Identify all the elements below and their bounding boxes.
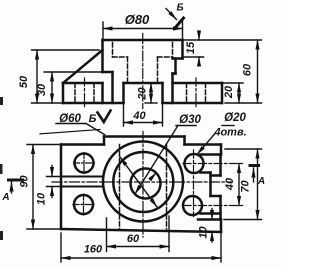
base top left bbox=[63, 82, 103, 85]
dim 40 ext right bbox=[162, 105, 164, 126]
lug step lower bbox=[211, 195, 221, 198]
svg-text:Ø60: Ø60 bbox=[59, 113, 81, 125]
centerline hole TL vertical bbox=[83, 153, 85, 174]
dim 90 ext top bbox=[27, 144, 59, 146]
hole bottom-left Ø20 bbox=[74, 195, 93, 214]
svg-text:4отв.: 4отв. bbox=[213, 127, 246, 139]
hidden hole right Ø20 bbox=[186, 83, 188, 103]
view B arrow top bbox=[166, 9, 177, 20]
dim 15 ext bottom bbox=[184, 56, 204, 58]
centerline bottom horizontal bbox=[52, 181, 231, 183]
leader Ø30 underline bbox=[176, 125, 196, 127]
step right at y=73.5 bbox=[173, 72, 176, 75]
boss strip stub right bbox=[183, 137, 186, 145]
dim 160 ext right bbox=[220, 234, 222, 262]
svg-text:Б: Б bbox=[89, 113, 97, 125]
svg-text:10: 10 bbox=[36, 192, 48, 205]
section A mark right bar bbox=[250, 164, 259, 167]
rect bottom edge bbox=[61, 229, 221, 232]
dim 10 ext top bbox=[47, 176, 62, 178]
dim 90 line bbox=[32, 145, 34, 230]
rib slot top line bbox=[61, 176, 103, 178]
notch top bbox=[124, 82, 163, 85]
section A mark right arrow bbox=[253, 168, 255, 182]
svg-text:60: 60 bbox=[127, 233, 140, 245]
dim 160 line bbox=[61, 257, 221, 259]
rect right edge top seg bbox=[220, 145, 223, 155]
dim 40 line bbox=[124, 122, 163, 124]
leader Ø60 bbox=[56, 123, 86, 125]
leader Ø60 lower line bbox=[40, 130, 100, 134]
centerline lugs vertical bbox=[193, 150, 195, 217]
svg-text:20: 20 bbox=[223, 85, 235, 99]
dim 15 ext top (flange top extended right) bbox=[184, 39, 262, 41]
circle Ø30 bbox=[131, 169, 161, 199]
dim 50 ext top bbox=[32, 49, 100, 51]
base bottom right bbox=[163, 102, 223, 105]
lug bottom edge bbox=[198, 218, 221, 221]
lug outer edge upper bbox=[219, 155, 222, 176]
svg-text:70: 70 bbox=[240, 180, 252, 193]
lug outer edge lower bbox=[219, 196, 222, 220]
rect top left bbox=[61, 143, 104, 146]
dim 60 ext bottom right bbox=[225, 102, 262, 104]
rib diagonal bbox=[63, 50, 103, 83]
centerline hole TL horizontal bbox=[74, 162, 95, 164]
dim Ø80 line bbox=[103, 28, 183, 30]
dim Ø80 ext right bbox=[182, 19, 184, 39]
circle Ø60 bbox=[113, 152, 173, 212]
svg-text:40: 40 bbox=[224, 177, 236, 191]
view B arrow left (near Ø60) bbox=[98, 111, 111, 123]
hidden notch edge right bbox=[166, 145, 168, 230]
dim 50 line bbox=[36, 50, 38, 103]
rect right edge bottom seg bbox=[220, 220, 223, 233]
svg-text:90: 90 bbox=[19, 175, 31, 188]
svg-text:Б: Б bbox=[176, 3, 183, 14]
lug slot bottom lower bbox=[201, 212, 221, 215]
leader 4otv to top lug bbox=[197, 134, 215, 155]
svg-text:А: А bbox=[257, 176, 265, 187]
base top right bbox=[173, 82, 223, 85]
dim 60 ext right bbox=[168, 216, 170, 252]
hole top-left Ø20 bbox=[75, 154, 94, 173]
flange right edge bbox=[181, 40, 184, 59]
hidden counterbore right wall bbox=[172, 43, 174, 58]
step left at y=72 bbox=[103, 71, 113, 74]
dim 70 ext bottom bbox=[224, 219, 262, 221]
lug slot top upper bbox=[201, 153, 222, 156]
centerline hole BL horizontal bbox=[73, 204, 94, 206]
leader Ø20 underline bbox=[222, 125, 234, 127]
svg-text:Ø80: Ø80 bbox=[125, 12, 150, 27]
base bottom left bbox=[63, 102, 124, 105]
svg-text:Ø30: Ø30 bbox=[179, 114, 201, 126]
rect left edge bbox=[60, 145, 63, 230]
edge smudge bottom-left bbox=[0, 231, 3, 240]
dim 60 ext left bbox=[106, 218, 108, 252]
dim 30 ext top bbox=[44, 71, 112, 73]
svg-text:10: 10 bbox=[198, 226, 210, 239]
dim 160 ext left bbox=[60, 233, 62, 262]
lug step upper bbox=[211, 174, 221, 177]
centerline lug bottom horizontal bbox=[183, 205, 243, 207]
dim 60 line bbox=[107, 246, 170, 248]
dim 90 ext bottom bbox=[27, 228, 59, 230]
hidden counterbore bottom left bbox=[113, 56, 128, 58]
lug slot bottom upper bbox=[201, 171, 211, 174]
centerline hole BL vertical bbox=[83, 194, 85, 215]
svg-text:Ø20: Ø20 bbox=[224, 112, 246, 124]
hidden hole left Ø20 bbox=[74, 83, 76, 103]
boss strip stub left bbox=[103, 137, 106, 145]
dim 40 ext left bbox=[123, 105, 125, 126]
dim 30 line bbox=[51, 72, 53, 103]
hidden notch edge left bbox=[119, 145, 121, 230]
centerline front hole left bbox=[84, 78, 86, 107]
leader Ø30 into bottom view bbox=[135, 126, 178, 195]
dim 20 line right bbox=[238, 83, 240, 103]
dim 60 line right bbox=[257, 40, 259, 103]
base right edge bbox=[221, 83, 224, 103]
centerline front hole right bbox=[195, 78, 197, 107]
dim bottom ext left bbox=[32, 102, 64, 104]
dim 10 right arrow bottom bbox=[211, 232, 213, 243]
lug inner wall bbox=[209, 173, 212, 197]
dim 10 right arrow top bbox=[211, 209, 213, 220]
dim 10 arrow bottom bbox=[51, 187, 53, 198]
dim 15 arrow bottom bbox=[198, 57, 200, 66]
boss left edge bbox=[111, 72, 114, 103]
flange bottom right visible bbox=[173, 57, 183, 60]
svg-text:30: 30 bbox=[36, 83, 48, 96]
hidden hole Ø30 right bbox=[157, 57, 159, 83]
lug top-right circle bbox=[185, 154, 204, 173]
svg-text:50: 50 bbox=[18, 75, 30, 88]
centerline lug top horizontal bbox=[183, 163, 243, 165]
svg-text:15: 15 bbox=[185, 41, 197, 54]
hidden hole Ø30 left bbox=[127, 57, 129, 83]
section A mark left arrow bbox=[11, 182, 13, 193]
dim 70 line bbox=[257, 149, 259, 220]
notch right wall bbox=[161, 83, 164, 103]
lug bottom-right circle bbox=[183, 196, 202, 215]
section A mark left bar bbox=[9, 179, 23, 182]
dim 15 arrow top bbox=[198, 31, 200, 40]
rect top right bbox=[185, 143, 222, 146]
rib slot bottom line bbox=[61, 186, 103, 188]
leader Ø60 diagonal arrows in circle bbox=[120, 157, 157, 207]
svg-text:60: 60 bbox=[242, 63, 254, 76]
svg-text:40: 40 bbox=[132, 110, 146, 122]
dim 10 ext bottom bbox=[47, 186, 62, 188]
rib front edge bbox=[101, 83, 104, 103]
boss strip top bbox=[104, 135, 185, 138]
circle Ø80 bbox=[103, 142, 183, 222]
dim 10 arrow top bbox=[51, 166, 53, 177]
dim Ø80 ext left bbox=[102, 22, 104, 39]
hidden counterbore left wall bbox=[112, 43, 114, 58]
boss right edge bbox=[171, 74, 174, 104]
base left edge bbox=[62, 83, 65, 103]
dim 20 notch ext bbox=[145, 102, 157, 104]
svg-text:А: А bbox=[1, 192, 9, 203]
hidden counterbore bottom right bbox=[158, 56, 173, 58]
dim 70 ext top bbox=[225, 148, 262, 150]
svg-text:160: 160 bbox=[84, 244, 103, 256]
dim 40 right line bbox=[238, 164, 240, 206]
edge smudge mid-left bbox=[0, 164, 3, 174]
dim 20 notch line bbox=[150, 83, 152, 103]
collar right edge bbox=[174, 59, 177, 74]
leader Ø30 second arrow bbox=[150, 173, 156, 180]
svg-text:20: 20 bbox=[137, 87, 149, 101]
notch left wall bbox=[122, 83, 125, 103]
dim 20 ext top right bbox=[223, 82, 243, 84]
flange top edge bbox=[103, 39, 183, 42]
centerline bottom vertical bbox=[142, 132, 144, 238]
flange left edge bbox=[101, 40, 104, 72]
edge smudge top-left bbox=[0, 97, 3, 105]
centerline front main bbox=[142, 34, 144, 109]
